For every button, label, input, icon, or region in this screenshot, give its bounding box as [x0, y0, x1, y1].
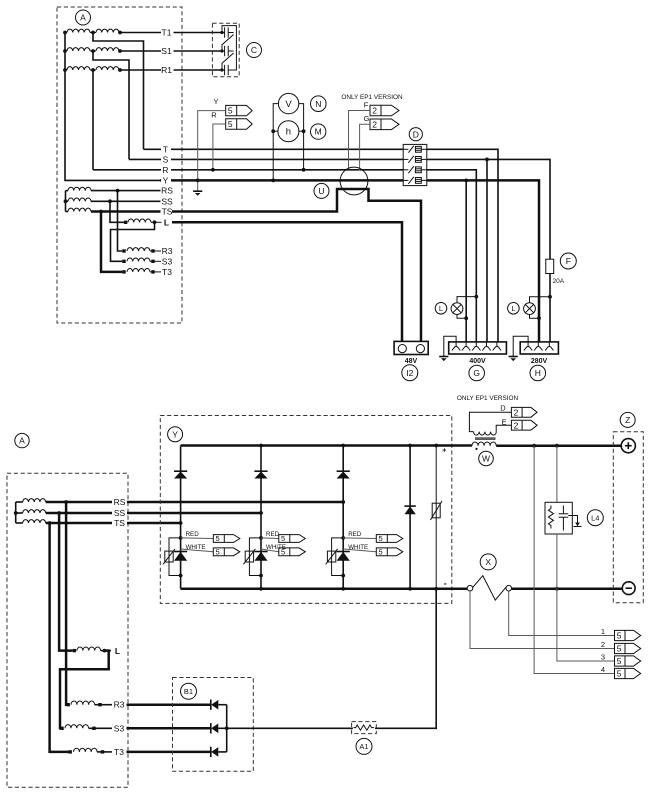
diode D1 in B1 [211, 700, 227, 710]
connector 280V (H) [520, 342, 558, 354]
snubber L4 [545, 502, 572, 534]
svg-text:R: R [211, 111, 217, 120]
label H [530, 365, 546, 381]
ground (Y tap) [193, 191, 202, 196]
winding L (top) [124, 219, 162, 224]
wire thermistor sub-branch 3 [332, 538, 344, 576]
thermistor branch 3 [326, 549, 338, 564]
wire RED tap branch 3 [343, 537, 376, 540]
transformer A enclosure (bottom) [7, 473, 128, 787]
svg-text:L: L [164, 217, 169, 227]
diode bottom branch 3 [337, 552, 350, 561]
wire RED tap branch 2 [261, 537, 279, 540]
svg-text:D: D [413, 129, 419, 139]
diode D2 in B1 [211, 723, 227, 733]
wire L4 earth hook [568, 516, 581, 527]
output block Z enclosure [613, 432, 643, 603]
svg-text:5: 5 [228, 106, 233, 116]
wire L bus to 48V connector (bold) [172, 222, 402, 341]
wire T3 to diode block B1 [127, 751, 211, 754]
wire switch X to lead 2 [470, 591, 615, 649]
svg-text:4: 4 [601, 665, 605, 674]
svg-text:R: R [162, 165, 168, 175]
svg-text:280V: 280V [531, 358, 548, 365]
svg-text:R3: R3 [162, 246, 173, 256]
svg-text:C: C [251, 45, 257, 55]
winding S3 (bottom) [60, 725, 112, 730]
connector 2 (W primary D) [511, 407, 537, 417]
svg-text:A: A [19, 436, 25, 446]
svg-text:2: 2 [372, 119, 377, 129]
wire lamp1 to phase wires [457, 295, 478, 320]
svg-text:S3: S3 [162, 256, 173, 266]
wire lamp2 to phase wires [530, 295, 552, 320]
diode top branch 1 [174, 471, 187, 478]
svg-text:400V: 400V [469, 358, 486, 365]
wire L return to S3 winding [111, 222, 155, 261]
transformer A enclosure (top) [57, 7, 182, 323]
wire thermistor sub-branch 1 [169, 538, 181, 576]
label B1 [181, 683, 197, 699]
varistor (rectifier output) [430, 501, 442, 520]
svg-text:h: h [286, 127, 291, 138]
label A (bottom) [15, 433, 29, 447]
wire tap R1 centre to R bus [92, 70, 94, 170]
svg-text:5: 5 [617, 669, 622, 679]
winding SS (bottom) [16, 510, 112, 515]
capacitor block C enclosure [212, 23, 239, 77]
rectifier block Y enclosure [160, 416, 452, 604]
wire SS tap down to L (bottom) [59, 513, 73, 651]
svg-text:S: S [163, 154, 169, 164]
wire R connector to R bus [211, 124, 226, 172]
wire SS tap down to L winding [110, 201, 124, 222]
ground (280V) [509, 357, 518, 362]
winding S3 (top) [122, 258, 161, 263]
connector 5 WHITE branch 3 [376, 548, 403, 557]
wire R3 to diode block B1 [127, 703, 211, 706]
connector 5 RED branch 3 [376, 534, 403, 543]
wire R1 to capacitor block C [174, 69, 223, 71]
diode D3 in B1 [211, 747, 227, 757]
svg-text:5: 5 [617, 644, 622, 654]
connector 5 RED branch 2 [279, 534, 306, 543]
winding R3 (bottom) [67, 701, 113, 706]
svg-text:48V: 48V [405, 358, 418, 365]
winding T3 (top) [122, 269, 161, 274]
svg-text:2: 2 [601, 640, 605, 649]
winding R1 (primary row 3) [63, 67, 161, 72]
winding T1 (primary row 1) [63, 29, 161, 34]
label Z [620, 412, 635, 427]
svg-text:Z: Z [625, 415, 630, 425]
svg-text:5: 5 [379, 534, 383, 543]
diode top branch 2 [254, 471, 267, 478]
svg-text:R3: R3 [114, 700, 125, 710]
label C [247, 43, 262, 58]
current transformer U [340, 167, 368, 195]
label U [314, 183, 329, 198]
wire tap T1 centre to T bus [93, 33, 144, 150]
connector 2 (F, CT secondary) [370, 105, 399, 116]
connector 5 (R tap) [226, 119, 253, 129]
connector 5 WHITE branch 1 [213, 548, 240, 557]
svg-text:B1: B1 [184, 687, 193, 696]
svg-text:5: 5 [281, 534, 285, 543]
connector 2 (G, CT secondary) [370, 119, 399, 130]
svg-text:W: W [482, 454, 490, 464]
svg-text:RED: RED [186, 531, 200, 538]
svg-text:M: M [315, 127, 322, 137]
voltmeter V [278, 93, 298, 113]
wire Y bus (bold) [160, 179, 539, 342]
svg-text:2: 2 [514, 420, 519, 430]
connector 5 (Y tap) [226, 105, 253, 115]
label L (lamp 400V) [435, 303, 447, 315]
wire WHITE tap branch 1 [181, 549, 214, 552]
winding TS (bottom) [16, 520, 112, 525]
wire left bus of bottom windings [14, 502, 18, 523]
rectifier freewheel diode branch [409, 446, 411, 589]
svg-text:L: L [439, 304, 443, 313]
wire left bus of RS/SS/TS windings (top) [64, 191, 68, 212]
svg-text:S1: S1 [161, 46, 172, 56]
wire S3 to diode block B1 [127, 727, 211, 730]
svg-text:U: U [318, 186, 324, 196]
svg-text:TS: TS [114, 518, 125, 528]
wire B1 cathode bus [225, 705, 229, 752]
svg-text:A1: A1 [359, 742, 368, 751]
capacitor block C internal delta [220, 26, 236, 76]
svg-text:20A: 20A [553, 278, 565, 285]
svg-text:RED: RED [266, 531, 280, 538]
wire left bus of primary windings joining Y [65, 33, 160, 181]
label G [469, 365, 485, 381]
svg-text:5: 5 [216, 534, 220, 543]
connector 5 lead 3 [615, 656, 641, 666]
thermistor branch 2 [243, 549, 255, 564]
svg-text:F: F [566, 256, 571, 266]
svg-text:3: 3 [601, 653, 605, 662]
wire T bus [144, 149, 499, 342]
wire SS into rectifier Y [127, 511, 263, 515]
varistor branch (rectifier) [435, 446, 437, 589]
svg-text:L4: L4 [591, 513, 599, 522]
svg-text:H: H [535, 368, 541, 378]
wire TS bus through CT to 48V connector (bold) [172, 189, 421, 341]
connector 5 lead 1 [615, 630, 641, 640]
wire TS into rectifier Y [127, 521, 183, 525]
wire positive bus to L4 [556, 446, 558, 503]
label L (lamp 280V) [508, 303, 520, 315]
wire positive bus to lead 4 [534, 446, 614, 674]
label A (top transformer) [76, 10, 91, 25]
svg-text:Y: Y [163, 175, 169, 185]
svg-text:5: 5 [379, 548, 383, 557]
wire earth loop 400V [444, 336, 456, 356]
svg-text:A: A [80, 13, 86, 23]
diode freewheel [404, 506, 415, 514]
label D [409, 128, 422, 141]
diode bottom branch 2 [254, 552, 267, 561]
label I2 [402, 365, 418, 381]
diode bottom branch 1 [174, 552, 187, 561]
winding TS (top) [66, 208, 161, 213]
svg-text:D: D [500, 404, 506, 413]
svg-text:1: 1 [601, 627, 605, 636]
wire B1 to A1 [227, 727, 353, 729]
wire A1 to rectifier negative bus [375, 589, 436, 729]
fuse F 20A [546, 259, 554, 273]
wire S1 to capacitor block C [174, 50, 223, 52]
svg-text:2: 2 [514, 407, 519, 417]
wire G connector to CT [360, 124, 370, 170]
svg-text:TS: TS [162, 207, 173, 217]
svg-text:RS: RS [161, 186, 173, 196]
wire meters right leg to R bus [299, 104, 306, 172]
svg-text:T3: T3 [114, 747, 124, 757]
svg-text:V: V [285, 99, 292, 110]
svg-text:ONLY EP1 VERSION: ONLY EP1 VERSION [457, 395, 519, 402]
diode top branch 3 [337, 471, 350, 478]
svg-text:I2: I2 [406, 368, 413, 378]
winding RS (top) [66, 187, 161, 192]
label F [560, 253, 576, 269]
winding L (bottom) [73, 647, 111, 653]
ground (400V) [439, 357, 448, 362]
rectifier branch 3 vertical [341, 446, 345, 589]
svg-text:2: 2 [372, 106, 377, 116]
thermistor branch 1 [163, 549, 175, 564]
svg-text:+: + [442, 448, 446, 455]
hour meter h [278, 121, 299, 142]
svg-text:L: L [511, 304, 515, 313]
wire meters left leg to Y bus [271, 104, 278, 183]
diode block B1 enclosure [173, 678, 254, 772]
svg-text:5: 5 [228, 119, 233, 129]
rectifier branch 1 vertical [179, 446, 183, 589]
svg-text:X: X [485, 557, 491, 567]
wire WHITE tap branch 2 [261, 549, 279, 552]
connector 400V (G) [449, 342, 507, 354]
connector 5 lead 4 [615, 668, 641, 678]
svg-text:G: G [364, 114, 370, 123]
wire S bus [129, 158, 550, 342]
svg-text:F: F [364, 101, 369, 110]
svg-text:SS: SS [161, 196, 173, 206]
wire L4 to negative bus and lead 3 [557, 534, 615, 661]
label M [311, 124, 326, 139]
rectifier branch 2 vertical [259, 446, 263, 589]
label W [479, 451, 494, 466]
wire RS tap down to R3 (bottom) [65, 502, 68, 705]
winding R3 (top) [122, 248, 161, 253]
svg-text:G: G [473, 368, 480, 378]
transformer W core [475, 438, 496, 440]
wire tap S1 centre to S bus [93, 51, 129, 159]
wire RS into rectifier Y [127, 500, 345, 504]
winding S1 (primary row 2) [63, 48, 161, 53]
svg-text:Y: Y [213, 97, 218, 106]
connector 5 lead 2 [615, 643, 641, 653]
lamp L (400V) [451, 303, 463, 315]
svg-text:RS: RS [114, 497, 126, 507]
terminal minus [622, 582, 635, 595]
label N [311, 96, 327, 112]
label L4 [587, 510, 603, 526]
wire RS tap down to R3 winding [118, 191, 123, 251]
wire TS tap down to T3 (bottom) [50, 523, 69, 752]
svg-text:T: T [163, 144, 168, 154]
winding RS (bottom) [16, 499, 112, 504]
svg-text:N: N [315, 99, 321, 109]
wire Y connector to Y bus and earth [196, 111, 226, 191]
winding SS (top) [66, 198, 161, 203]
svg-text:R1: R1 [161, 65, 172, 75]
wire RED tap branch 1 [181, 537, 214, 540]
connector 5 RED branch 1 [213, 534, 240, 543]
svg-text:ONLY EP1 VERSION: ONLY EP1 VERSION [341, 94, 403, 101]
switch-fuse block D [403, 144, 427, 185]
wire T1 to capacitor block C [174, 32, 223, 34]
label X [480, 554, 496, 570]
lamp L (280V) [524, 303, 536, 315]
resistor A1 [352, 722, 377, 734]
wire R bus [93, 170, 476, 342]
label A1 [356, 738, 372, 754]
svg-text:T1: T1 [162, 28, 172, 38]
terminal plus [621, 439, 635, 453]
wire TS tap down to T3 winding (bold) [101, 212, 122, 272]
svg-text:Y: Y [172, 429, 178, 439]
switch X [467, 576, 511, 600]
svg-text:RED: RED [348, 531, 362, 538]
connector 2 (W primary E) [511, 420, 537, 430]
wire negative bus (bold) [181, 587, 623, 591]
svg-text:SS: SS [114, 508, 126, 518]
svg-text:-: - [444, 579, 447, 589]
connector 5 WHITE branch 2 [279, 548, 306, 557]
svg-text:T3: T3 [162, 267, 172, 277]
wire switch X to lead 1 [509, 591, 615, 636]
svg-text:5: 5 [281, 548, 285, 557]
wire thermistor sub-branch 2 [249, 538, 261, 576]
connector 48V (I2) [394, 341, 428, 354]
wire WHITE tap branch 3 [343, 549, 376, 552]
label Y (rectifier) [168, 427, 183, 442]
wire earth loop 280V [513, 336, 528, 356]
svg-text:S3: S3 [114, 723, 125, 733]
transformer W primary [469, 412, 511, 435]
wire L return to S3 (bottom) [60, 651, 109, 729]
wire F connector to CT [349, 111, 371, 170]
winding T3 (bottom) [69, 748, 113, 753]
svg-text:L: L [115, 646, 120, 656]
transformer W secondary (in positive bus) [472, 442, 496, 450]
svg-text:5: 5 [617, 631, 622, 641]
wire positive bus (bold) [181, 444, 622, 448]
svg-text:5: 5 [216, 548, 220, 557]
svg-text:5: 5 [617, 656, 622, 666]
